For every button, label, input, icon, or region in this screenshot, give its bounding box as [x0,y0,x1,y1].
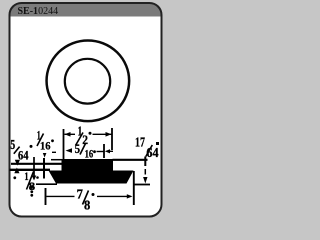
svg-text:64: 64 [18,148,29,162]
svg-text:SE-10244: SE-10244 [18,6,59,17]
svg-text:17: 17 [135,136,145,151]
svg-text:7: 7 [77,187,83,202]
svg-text:16: 16 [40,141,51,153]
svg-text:5: 5 [10,138,15,153]
svg-text:16: 16 [85,148,94,160]
